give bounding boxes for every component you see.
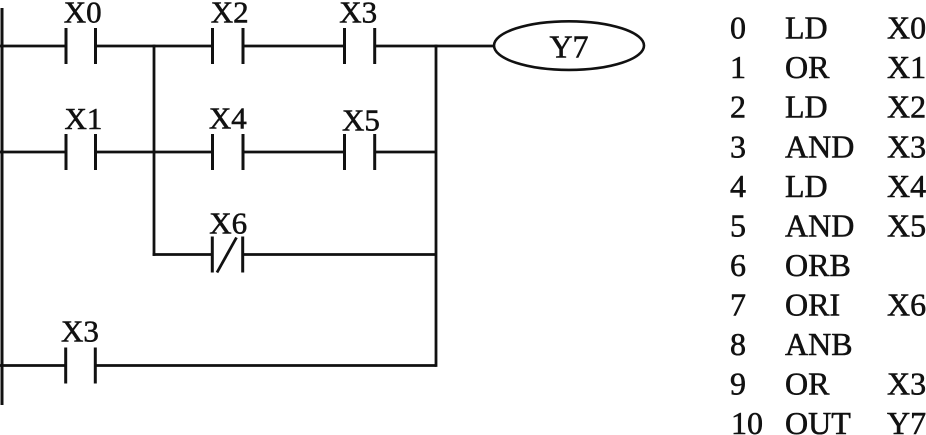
svg-text:X6: X6 xyxy=(887,287,926,323)
svg-text:X1: X1 xyxy=(887,49,926,85)
svg-text:X5: X5 xyxy=(887,207,926,243)
wire rung1 X2 to X3 xyxy=(243,45,345,48)
svg-text:Y7: Y7 xyxy=(549,29,588,65)
svg-text:7: 7 xyxy=(730,287,746,323)
svg-text:9: 9 xyxy=(730,366,746,402)
wire bottom rung left segment xyxy=(0,364,66,367)
contact X3 xyxy=(345,28,375,64)
svg-text:LD: LD xyxy=(785,168,828,204)
contact X5 xyxy=(345,134,375,170)
svg-text:X3: X3 xyxy=(887,366,926,402)
svg-text:X2: X2 xyxy=(887,89,926,125)
wire rung2 X1 to X4 xyxy=(96,151,213,154)
svg-text:1: 1 xyxy=(730,49,746,85)
contact X6 slash xyxy=(217,238,237,273)
coil Y7 xyxy=(494,21,644,70)
svg-text:ORI: ORI xyxy=(785,287,840,323)
contact X6 (normally closed) xyxy=(212,237,242,273)
svg-text:X3: X3 xyxy=(339,0,377,30)
svg-text:AND: AND xyxy=(785,207,854,243)
contact X2 xyxy=(213,28,244,64)
svg-text:ANB: ANB xyxy=(785,326,853,362)
contact X4 xyxy=(213,134,244,170)
svg-text:LD: LD xyxy=(785,10,828,46)
contact X1 xyxy=(66,134,96,170)
wire mid branch vertical xyxy=(153,45,156,256)
svg-text:LD: LD xyxy=(785,89,828,125)
svg-text:X1: X1 xyxy=(64,101,102,136)
left power rail xyxy=(1,8,4,405)
wire rung1 X0 to X2 xyxy=(96,45,213,48)
contact X0 xyxy=(66,28,96,64)
svg-text:ORB: ORB xyxy=(785,247,851,283)
wire rung2 X4 to X5 xyxy=(243,151,345,154)
wire bottom rung right segment xyxy=(95,364,436,367)
svg-text:0: 0 xyxy=(730,10,746,46)
instruction list xyxy=(730,10,926,435)
wire X6 rung left segment xyxy=(153,253,213,256)
wire rung1 X3 to coil xyxy=(375,45,495,48)
svg-text:X3: X3 xyxy=(887,128,926,164)
svg-text:X4: X4 xyxy=(209,101,247,136)
wire rung2 left segment xyxy=(0,151,66,154)
svg-text:X4: X4 xyxy=(887,168,926,204)
contact X3 (bottom) xyxy=(66,348,96,384)
wire X6 rung right segment xyxy=(243,253,436,256)
svg-text:OUT: OUT xyxy=(785,405,851,435)
svg-text:X2: X2 xyxy=(211,0,249,30)
wire rung1 left segment xyxy=(0,45,66,48)
svg-text:X3: X3 xyxy=(61,314,99,349)
svg-text:4: 4 xyxy=(730,168,746,204)
svg-text:10: 10 xyxy=(731,405,763,435)
svg-text:AND: AND xyxy=(785,128,854,164)
svg-text:8: 8 xyxy=(730,326,746,362)
svg-text:5: 5 xyxy=(730,207,746,243)
svg-text:6: 6 xyxy=(730,247,746,283)
svg-text:X5: X5 xyxy=(342,103,380,138)
svg-text:3: 3 xyxy=(730,128,746,164)
wire right vertical xyxy=(435,45,438,367)
wire rung2 X5 to right vertical xyxy=(375,151,436,154)
svg-text:2: 2 xyxy=(730,89,746,125)
svg-text:OR: OR xyxy=(785,49,830,85)
svg-text:X6: X6 xyxy=(209,206,247,241)
svg-text:X0: X0 xyxy=(64,0,102,30)
svg-text:OR: OR xyxy=(785,366,830,402)
svg-text:X0: X0 xyxy=(887,10,926,46)
svg-text:Y7: Y7 xyxy=(887,405,926,435)
